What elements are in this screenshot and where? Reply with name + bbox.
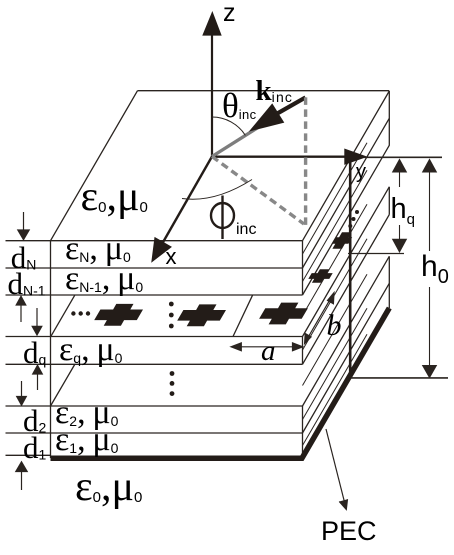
- PEC leader arrow: [326, 429, 348, 510]
- top face rear edge: [138, 90, 390, 92]
- front-right vertical edge top slab: [302, 241, 304, 295]
- bottom up arrow to PEC: [16, 462, 27, 490]
- label y: [356, 162, 366, 182]
- top face right slant edge: [303, 91, 390, 241]
- FSS cross element 2: [177, 304, 226, 326]
- dimension b double arrow: [305, 293, 334, 344]
- h_q reference line: [348, 253, 404, 255]
- label h0: [421, 252, 449, 287]
- front-right vertical edge middle slab: [302, 337, 304, 365]
- label d1: [23, 432, 46, 463]
- rear vertical edge top slab: [388, 91, 390, 146]
- label a: [261, 337, 276, 366]
- label z: [223, 1, 236, 26]
- front horizontal L3: [6, 294, 303, 296]
- y axis: [212, 150, 364, 163]
- side slant from L2: [303, 118, 390, 268]
- label eps1 row: [55, 423, 118, 457]
- y axis thin extension to dimension lines: [364, 156, 442, 158]
- h_q dimension lower arrow: [393, 225, 407, 252]
- label dN-1: [8, 268, 46, 299]
- receding FSS cross row 3: [332, 232, 352, 248]
- theta_inc angle arc: [212, 117, 245, 135]
- x axis: [153, 157, 212, 261]
- hatch line mid slab: [303, 239, 368, 350]
- phi_inc angle arc: [182, 180, 252, 200]
- h_0 dimension upper arrow: [423, 160, 437, 252]
- label epsN row: [65, 232, 131, 266]
- dashed gray vertical projection line: [304, 97, 307, 225]
- hatch line band2: [303, 170, 368, 281]
- front horizontal L5: [6, 363, 303, 365]
- dimension a double arrow: [231, 343, 303, 351]
- side slant from L7: [303, 283, 390, 433]
- front horizontal L8 thin left part: [6, 454, 51, 456]
- diagonal ellipsis on right ledge: [348, 210, 359, 228]
- side slant from L3: [303, 145, 390, 295]
- side slant from L5 (mid slab bottom right edge): [303, 215, 390, 365]
- front horizontal L6: [6, 405, 303, 407]
- side slant from L4 (mid slab top right edge): [303, 187, 390, 337]
- gap1 down arrow: [32, 308, 42, 335]
- side slant from L6 (bottom stack top right edge): [303, 256, 390, 406]
- FSS cross element 1: [94, 304, 143, 326]
- rear vertical edge middle slab: [388, 187, 390, 215]
- gap1 up arrow: [16, 296, 26, 322]
- hatch line gap1: [303, 204, 368, 315]
- z axis: [204, 14, 220, 157]
- label d2: [23, 405, 46, 436]
- label dq: [23, 337, 46, 368]
- front horizontal L1: [6, 240, 303, 242]
- hatch line band6: [303, 308, 368, 419]
- vertical ellipsis in lower gap: [170, 371, 175, 396]
- PEC ground plane thick slant edge: [301, 308, 389, 460]
- front-left vertical edge: [50, 241, 52, 458]
- FSS cross element 3: [259, 303, 308, 325]
- phi symbol drawn: [211, 196, 234, 240]
- label b: [327, 311, 342, 341]
- h_0 dimension lower arrow: [423, 287, 437, 378]
- rear vertical edge bottom stack: [388, 256, 390, 308]
- label epsilon0 mu0 bottom: [75, 466, 142, 508]
- label eps2 row: [55, 396, 118, 430]
- label epsilon0 mu0 top: [81, 176, 148, 218]
- label theta_inc: [222, 88, 257, 123]
- label k_inc: [256, 77, 294, 106]
- h_q dimension upper arrow: [393, 160, 407, 188]
- front-right vertical edge bottom slabs: [302, 406, 304, 456]
- h_0 reference line: [351, 377, 448, 379]
- horizontal ellipsis dots in FSS row: [71, 311, 90, 315]
- gap1 left slant (crosses plane left edge): [51, 295, 75, 336]
- d_N outside arrow above L1: [18, 212, 29, 240]
- front horizontal L2: [6, 267, 303, 269]
- hatch line band7: [303, 334, 368, 445]
- label hq: [391, 195, 415, 227]
- k_inc black arrow: [255, 97, 306, 128]
- unit cell slant line left: [233, 295, 253, 336]
- gap2 down arrow: [17, 381, 27, 405]
- gap2 up arrow: [33, 365, 43, 390]
- k_inc gray line into origin: [212, 115, 278, 157]
- vertical ellipsis in FSS row: [169, 302, 174, 329]
- front horizontal L7: [6, 432, 303, 434]
- label epsN-1 row: [65, 262, 143, 296]
- label PEC: [321, 518, 377, 545]
- label dN: [11, 242, 37, 273]
- PEC ground plane thick front edge: [51, 455, 304, 461]
- dashed gray diagonal projection line: [212, 157, 304, 225]
- gap2 left slant: [51, 365, 75, 407]
- label epsq row: [59, 333, 122, 367]
- receding FSS cross row 2: [308, 269, 332, 283]
- label x: [166, 246, 177, 268]
- vertical drop line from y axis to PEC: [349, 157, 352, 376]
- front horizontal L4: [6, 336, 303, 338]
- hatch line gap2: [303, 274, 368, 385]
- top face left slant edge: [51, 91, 138, 241]
- hatch line band1: [303, 143, 368, 254]
- label phi_inc subscript: [236, 222, 256, 238]
